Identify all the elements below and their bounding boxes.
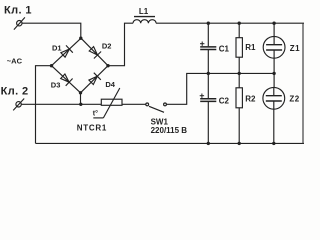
node bottom bridge	[79, 91, 82, 94]
diode D2	[89, 47, 101, 59]
diode D4	[89, 73, 101, 85]
wire bridge edge bottom-right	[81, 66, 109, 93]
wire bridge edge top-right	[81, 38, 108, 65]
node midline C	[207, 72, 210, 75]
node midline R	[238, 72, 241, 75]
wire	[167, 73, 275, 104]
wire	[36, 142, 305, 144]
svg-text:Кл. 2: Кл. 2	[1, 85, 29, 97]
wire	[156, 22, 304, 24]
svg-text:L1: L1	[139, 7, 149, 16]
inductor L1	[133, 17, 156, 24]
wire	[36, 66, 52, 144]
node top bus C	[207, 22, 210, 25]
terminal Кл.2	[13, 99, 24, 111]
capacitor C2	[200, 73, 216, 143]
svg-text:C2: C2	[219, 96, 230, 105]
svg-text:D3: D3	[51, 81, 61, 90]
resistor R1	[236, 23, 242, 73]
wire	[122, 103, 146, 105]
diode D3	[61, 74, 73, 86]
wire	[22, 23, 81, 38]
wire bridge edge left-top	[52, 38, 82, 65]
svg-text:R1: R1	[245, 43, 256, 52]
label + C1 polarity	[200, 42, 204, 46]
svg-text:R2: R2	[245, 95, 256, 104]
wire	[108, 23, 133, 65]
node bottom bus Z	[272, 142, 275, 145]
varistor Z1	[263, 23, 285, 73]
wire	[21, 103, 101, 105]
node left bridge	[50, 64, 53, 67]
svg-text:Кл. 1: Кл. 1	[4, 5, 32, 17]
switch SW1	[146, 103, 167, 112]
node bottom bus R	[238, 142, 241, 145]
svg-text:Z2: Z2	[289, 95, 299, 104]
svg-text:Z1: Z1	[290, 44, 300, 53]
terminal Кл.1	[14, 17, 25, 29]
node midline Z	[272, 72, 275, 75]
node right bridge	[106, 64, 109, 67]
right border	[302, 23, 304, 143]
diode D1	[61, 45, 73, 57]
label + C2 polarity	[200, 94, 204, 98]
svg-text:D2: D2	[102, 41, 112, 50]
node top bus R	[238, 22, 241, 25]
capacitor C1	[200, 23, 216, 73]
svg-text:NTCR1: NTCR1	[77, 123, 107, 132]
node top bus Z	[272, 22, 275, 25]
node bottom bus C	[207, 142, 210, 145]
node AC2 junction	[79, 103, 82, 106]
thermistor NTCR1	[93, 88, 122, 118]
svg-text:~AC: ~AC	[7, 56, 23, 65]
svg-text:t°: t°	[93, 109, 98, 117]
varistor Z2	[263, 73, 285, 143]
svg-text:D4: D4	[105, 80, 115, 89]
node top bridge	[79, 37, 82, 40]
svg-text:C1: C1	[219, 44, 230, 53]
resistor R2	[236, 73, 242, 143]
wire bridge edge left-bottom	[52, 66, 81, 93]
wire	[80, 93, 82, 105]
svg-text:D1: D1	[52, 44, 62, 53]
svg-text:220/115 В: 220/115 В	[151, 126, 188, 135]
